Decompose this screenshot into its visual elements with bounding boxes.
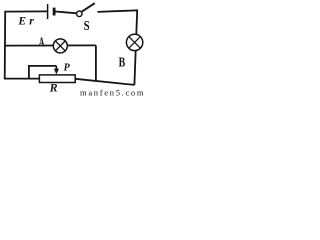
wire left side — [4, 11, 7, 80]
rheostat R box — [39, 75, 75, 83]
wire switch to top-right corner — [98, 10, 139, 12]
wire lamp A branch vertical — [95, 45, 97, 81]
switch S — [77, 3, 95, 16]
slider arrow P — [54, 66, 59, 75]
svg-text:S: S — [84, 19, 90, 34]
wire slider stub horizontal — [28, 65, 56, 67]
svg-text:E: E — [17, 16, 26, 28]
svg-text:r: r — [29, 15, 34, 27]
wire slider stub vertical — [28, 66, 30, 79]
svg-text:A: A — [39, 36, 45, 51]
svg-text:manfen5.com: manfen5.com — [80, 87, 144, 97]
lamp A — [53, 39, 67, 53]
wire to rheostat left terminal — [4, 78, 39, 80]
wire right side (through lamp B) — [134, 10, 137, 85]
svg-text:P: P — [64, 63, 71, 74]
svg-text:B: B — [119, 55, 126, 70]
wire lamp A branch horizontal — [5, 44, 96, 46]
svg-text:R: R — [49, 81, 58, 95]
lamp B — [126, 34, 142, 50]
wire bottom (corner to rheostat right terminal) — [75, 79, 134, 85]
wire battery to switch — [56, 12, 78, 14]
battery E r — [48, 4, 55, 19]
wire top-left segment — [5, 10, 47, 12]
